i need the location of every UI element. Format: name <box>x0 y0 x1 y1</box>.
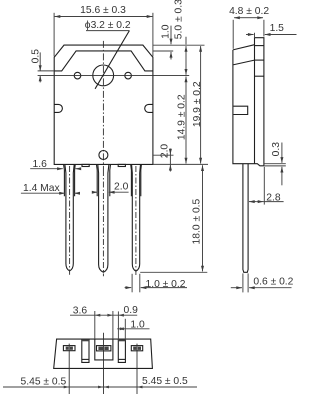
dim 2.8 line <box>249 201 257 203</box>
dim 1.5 line <box>246 34 254 36</box>
dim 0.6 ext lines <box>242 273 244 292</box>
dim 1.6 leader <box>30 168 63 170</box>
5.45 ticks/arrows <box>64 386 69 389</box>
phi leader slash <box>95 31 129 89</box>
svg-text:1.0: 1.0 <box>130 320 145 331</box>
side view tab strip <box>255 38 264 166</box>
bottom view lead 1 section <box>63 346 75 351</box>
lead 1 centerline <box>69 166 71 275</box>
svg-text:19.9 ± 0.2: 19.9 ± 0.2 <box>192 81 203 127</box>
horizontal centerline through holes <box>38 75 190 77</box>
bottom view centerline lead1 <box>68 344 70 394</box>
side view mold body <box>233 45 264 166</box>
side notch right <box>145 104 153 112</box>
dim 15.6 ext lines <box>53 13 55 57</box>
dim 3.6/0.9 line <box>70 314 137 316</box>
svg-text:1.4 Max: 1.4 Max <box>23 183 60 194</box>
svg-text:5.45 ± 0.5: 5.45 ± 0.5 <box>21 377 67 388</box>
dim 4.8 ext lines <box>232 20 234 49</box>
inner step ext line right <box>153 50 173 52</box>
svg-text:2.0: 2.0 <box>159 144 170 159</box>
lead 1 shoulder/dambar <box>64 165 76 197</box>
dim 5.45 dim line <box>3 386 197 388</box>
dim 14.9 line <box>185 77 187 121</box>
mounting hole <box>93 65 114 86</box>
svg-text:1.5: 1.5 <box>270 23 285 34</box>
lead 3 body <box>132 165 141 272</box>
svg-text:18.0 ± 0.5: 18.0 ± 0.5 <box>192 198 203 244</box>
bottom view outline <box>54 339 153 368</box>
phi leader underline <box>86 30 129 32</box>
side notch left <box>54 104 62 112</box>
svg-text:14.9 ± 0.2: 14.9 ± 0.2 <box>177 94 188 140</box>
bottom view rib 2 <box>118 339 125 362</box>
pkg bottom ext line right <box>153 163 208 165</box>
bottom view rib 1 <box>82 339 89 362</box>
front view inner mold step contour <box>54 51 153 71</box>
bottom hole ext line <box>153 154 174 156</box>
side view lead <box>243 164 248 273</box>
tab strip crossing lines <box>255 45 264 47</box>
dim 1.5 ext <box>254 33 256 38</box>
bottom rib stub right (front view) <box>118 164 125 166</box>
lead 2 centerline <box>102 170 104 276</box>
dim 0.3 line <box>281 143 283 163</box>
svg-text:0.6 ± 0.2: 0.6 ± 0.2 <box>253 276 293 287</box>
lead tip ext line <box>140 271 207 273</box>
svg-text:0.9: 0.9 <box>124 305 139 316</box>
dim 1.0 line (rib) <box>117 328 149 330</box>
dim 2.0 (lead2) leader <box>92 191 97 193</box>
dim 0.3 ext lines <box>264 163 285 165</box>
dim 19.9 line <box>200 46 202 105</box>
svg-text:3.6: 3.6 <box>73 305 88 316</box>
dim 0.5 ext lines <box>38 70 55 72</box>
small hole right <box>125 72 132 79</box>
dim 1.0 tip line <box>125 287 132 289</box>
lead 2 body <box>98 165 109 273</box>
lead 1 body <box>65 165 74 271</box>
dim 2.8 ext line <box>263 167 265 205</box>
side view notch <box>233 106 247 114</box>
svg-text:5.0 ± 0.3: 5.0 ± 0.3 <box>174 0 185 39</box>
svg-text:0.5: 0.5 <box>31 49 42 64</box>
lead 2 shoulder/dambar <box>97 165 111 197</box>
dim 2.0 line (bottom hole) <box>169 149 171 155</box>
bottom view lead 2 section <box>97 346 111 351</box>
dim 18.0 line <box>202 165 204 215</box>
dim 1.0 line (top right) <box>170 26 172 45</box>
dim 3.6/0.9 ext lines <box>94 311 96 339</box>
svg-text:1.0 ± 0.2: 1.0 ± 0.2 <box>146 279 186 290</box>
svg-text:5.45 ± 0.5: 5.45 ± 0.5 <box>142 376 188 387</box>
dim 0.5 line <box>39 52 41 71</box>
small hole left <box>74 72 81 79</box>
lead 3 centerline <box>135 166 137 275</box>
bottom view lead 3 section <box>131 346 142 351</box>
top ext line right <box>153 44 205 46</box>
vertical centerline <box>102 41 104 170</box>
dim 0.6 line <box>231 287 242 289</box>
svg-text:2.8: 2.8 <box>266 192 281 203</box>
dim 1.0 (lead3 tip) ext lines <box>131 274 133 293</box>
bottom hole <box>99 151 108 160</box>
svg-text:4.8 ± 0.2: 4.8 ± 0.2 <box>229 6 269 17</box>
svg-text:1.0: 1.0 <box>160 24 171 39</box>
svg-text:0.3: 0.3 <box>271 142 282 157</box>
svg-text:ϕ3.2 ± 0.2: ϕ3.2 ± 0.2 <box>85 20 131 31</box>
bottom rib stub left (front view) <box>82 164 89 166</box>
dim 15.6 line <box>55 16 104 18</box>
bottom view middle lead surround <box>95 339 113 360</box>
svg-text:15.6 ± 0.3: 15.6 ± 0.3 <box>80 5 126 16</box>
bottom view centerline lead3 <box>136 344 138 394</box>
svg-text:2.0: 2.0 <box>114 181 129 192</box>
dim 5.0 line <box>185 37 187 45</box>
lead 3 shoulder/dambar <box>131 165 142 197</box>
dim 1.4 Max leader <box>21 192 65 194</box>
front view package body outline <box>54 45 153 164</box>
bottom view centerline lead2 <box>103 333 105 394</box>
dim 4.8 line <box>234 17 249 19</box>
svg-text:1.6: 1.6 <box>33 159 48 170</box>
